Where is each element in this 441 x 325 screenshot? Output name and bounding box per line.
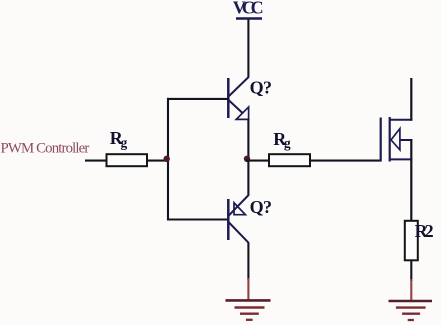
wire Q2 collector to ground (black part) xyxy=(247,243,249,281)
svg-text:Q?: Q? xyxy=(250,78,272,98)
ground (middle) xyxy=(226,300,271,319)
ground (right) xyxy=(389,301,433,320)
junction node A xyxy=(164,156,170,162)
MOSFET Q3 (N-channel) xyxy=(381,117,413,162)
junction node B xyxy=(244,156,250,162)
power rail VCC bar xyxy=(236,17,262,19)
wire MOSFET body/source down to R2 xyxy=(410,139,412,222)
wire Rg2 to MOSFET gate xyxy=(310,160,382,162)
resistor R2 xyxy=(405,221,418,260)
wire MOSFET drain (up) xyxy=(410,78,412,121)
wire bottom base lead xyxy=(167,218,229,220)
wire left bus xyxy=(167,98,169,221)
svg-text:Q?: Q? xyxy=(250,197,272,217)
wire R2 to ground (red part) xyxy=(410,279,412,300)
resistor Rg2 xyxy=(269,154,310,166)
wire Rg1 to node A xyxy=(147,160,168,162)
svg-text:PWM Controller: PWM Controller xyxy=(1,140,90,156)
wire PWM input to Rg1 xyxy=(85,160,107,162)
wire VCC to Q1 collector xyxy=(247,20,249,78)
resistor Rg1 xyxy=(107,154,148,166)
transistor Q1 (NPN) xyxy=(228,77,248,119)
wire top base lead xyxy=(167,98,229,100)
wire node B to Rg2 xyxy=(246,160,270,162)
wire Q1 emitter to Q2 emitter (mid vertical through node B) xyxy=(247,119,249,196)
wire Q2 collector to ground (red part) xyxy=(247,278,249,300)
svg-text:VCC: VCC xyxy=(233,0,263,18)
transistor Q2 (PNP) xyxy=(228,195,248,243)
wire R2 to ground (black part) xyxy=(410,260,412,281)
